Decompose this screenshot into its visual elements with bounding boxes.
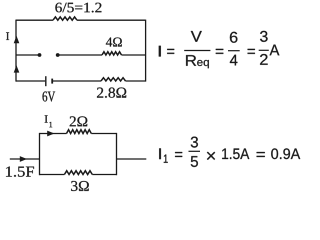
- equation 2 second equals sign: [257, 152, 265, 157]
- wire: bottom branch with 3 ohm resistor leads: [40, 174, 117, 176]
- equation 1 fraction bar 6 over 4: [228, 50, 240, 52]
- label source current 1.5F: [6, 167, 34, 177]
- equation 2 term I: [159, 148, 161, 159]
- label current I1 letter I: [45, 115, 48, 122]
- label current I: [6, 32, 9, 40]
- equation 1 second equals sign: [216, 49, 224, 54]
- equation 2 numerator 3: [191, 137, 198, 148]
- wire: left side of upper loop: [15, 20, 17, 82]
- equation 2 term 0.9A: [271, 148, 300, 159]
- equation 1 numerator V: [191, 31, 202, 42]
- current arrow I upper on left side pointing up: [14, 36, 20, 43]
- label 2.8 ohm: [97, 88, 126, 98]
- label 3 ohm: [71, 181, 89, 191]
- equation 2 term 1.5A: [222, 149, 249, 160]
- wire: right side of upper loop: [145, 20, 147, 82]
- equation 2 subscript 1: [164, 155, 168, 163]
- equation 1 denominator R: [186, 55, 196, 66]
- current arrow lower on left side pointing up: [14, 65, 20, 72]
- equation 1 fraction bar V over Req: [184, 50, 210, 52]
- equation 2 multiplication sign: [207, 152, 215, 160]
- current arrow on input lead pointing right: [20, 156, 27, 162]
- resistor 4 ohm on middle branch: [102, 52, 122, 55]
- resistor top (6/5 ohm) on top side: [53, 17, 77, 20]
- equation 1 term I: [159, 46, 161, 57]
- wire: top branch with 2 ohm resistor leads: [40, 133, 117, 135]
- current arrow I1 on top branch pointing right: [47, 131, 54, 137]
- node: left junction dot at switch gap: [38, 53, 42, 57]
- equation 1 numerator 6: [230, 32, 238, 43]
- equation 1 denominator 4: [230, 55, 238, 66]
- equation 1 unit A: [270, 45, 280, 56]
- equation 2 first equals sign: [175, 152, 182, 157]
- equation 1 third equals sign: [248, 49, 255, 54]
- node: right junction dot at switch gap: [56, 53, 60, 57]
- wire: input lead of lower circuit: [10, 158, 40, 160]
- wire: left vertical side of parallel block: [39, 133, 41, 175]
- wire: middle branch right segment with 4 ohm resistor leads: [58, 54, 146, 56]
- resistor 3 ohm on bottom branch: [64, 171, 92, 175]
- resistor 2 ohm on top branch: [67, 130, 92, 134]
- resistor 2.8 ohm on bottom side: [101, 78, 126, 81]
- label 4 ohm: [106, 38, 122, 47]
- equation 1 fraction bar 3 over 2: [259, 49, 269, 51]
- wire: middle branch left segment to switch gap: [16, 54, 40, 56]
- equation 1 denominator 2: [260, 54, 268, 65]
- equation 1 first equals sign: [167, 49, 174, 54]
- label current I1 subscript 1: [49, 122, 52, 127]
- battery 6V short negative plate: [51, 79, 53, 84]
- label top resistor value 6/5=1.2: [55, 3, 101, 13]
- equation 1 numerator 3: [260, 31, 268, 42]
- wire: top side of upper loop: [16, 19, 146, 21]
- wire: bottom side segments around 2.8 ohm resistor: [53, 80, 146, 82]
- equation 1 denominator subscript eq: [197, 60, 209, 68]
- label battery 6V: [43, 92, 56, 102]
- equation 2 fraction bar 3 over 5: [189, 150, 201, 152]
- wire: bottom side left segment to battery: [16, 80, 45, 82]
- label 2 ohm: [70, 116, 88, 126]
- battery 6V long positive plate: [45, 76, 47, 86]
- wire: output lead of lower circuit: [117, 158, 147, 160]
- wire: right vertical side of parallel block: [116, 133, 118, 175]
- equation 2 denominator 5: [191, 156, 198, 167]
